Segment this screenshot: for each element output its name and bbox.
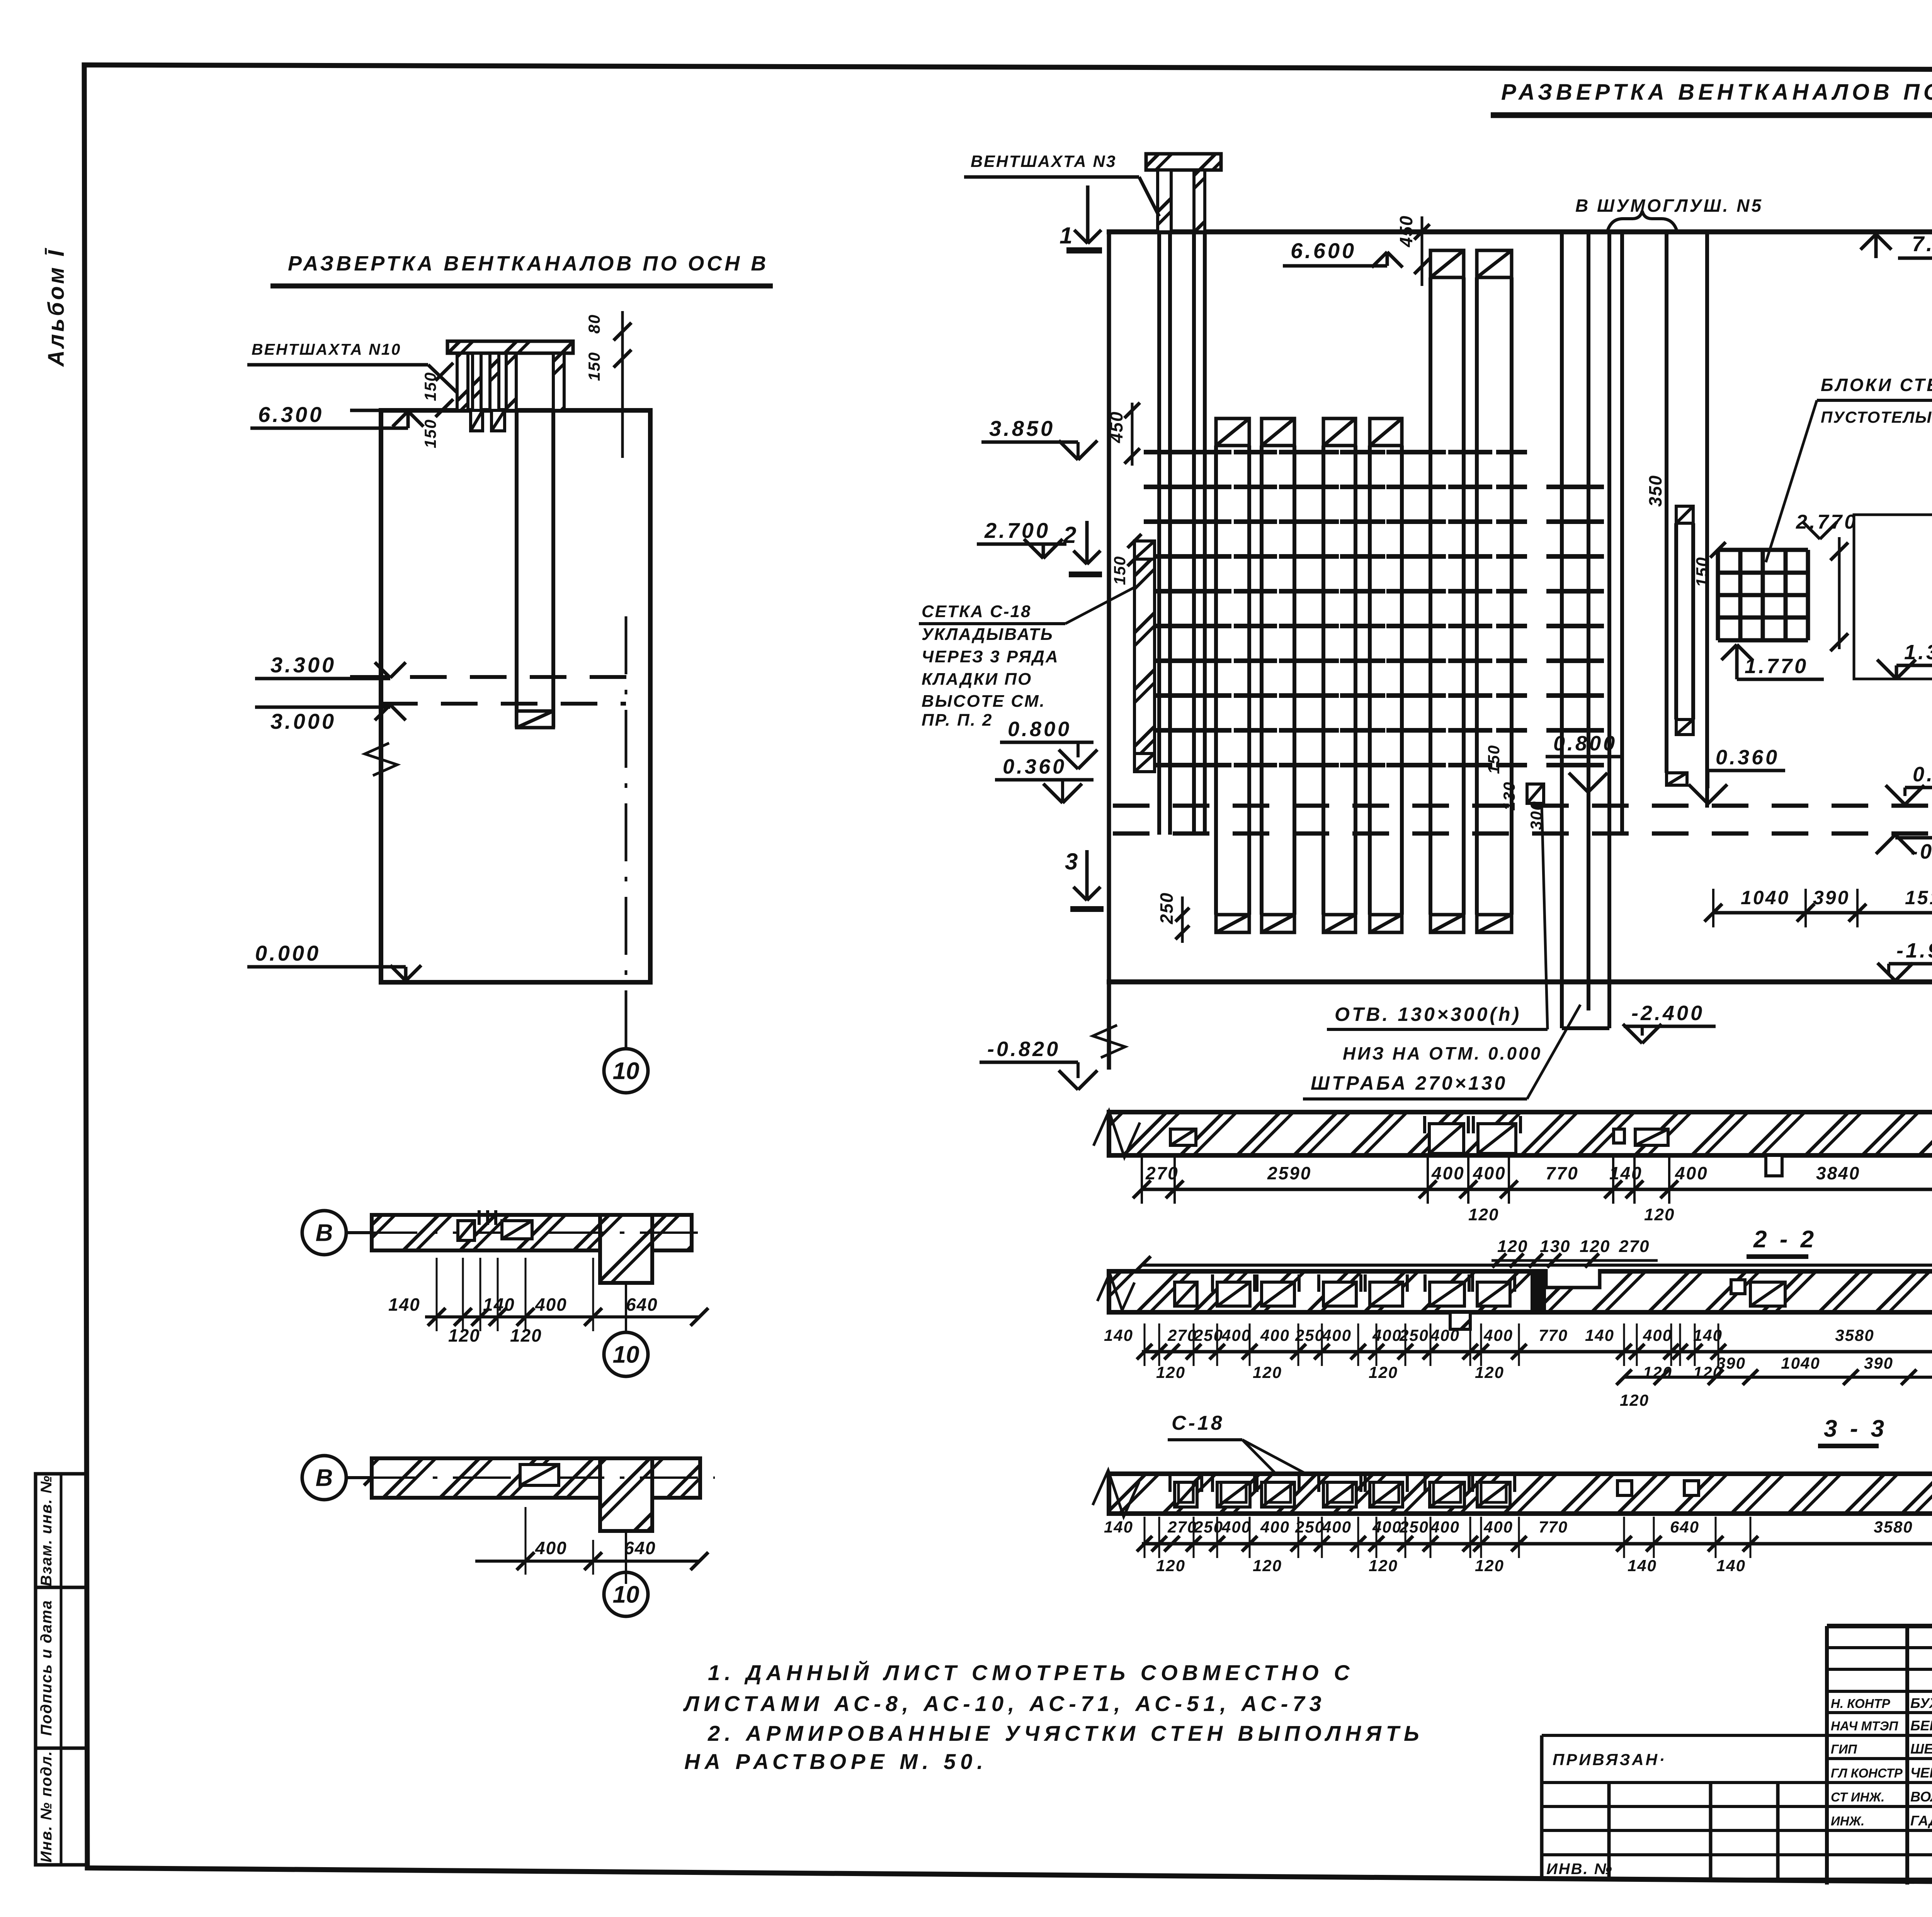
svg-text:640: 640: [624, 1538, 656, 1558]
svg-text:400: 400: [1372, 1326, 1402, 1344]
svg-text:В ШУМОГЛУШ. N5: В ШУМОГЛУШ. N5: [1575, 196, 1763, 216]
detail1 axis circle B: [302, 1211, 346, 1255]
svg-text:120: 120: [1156, 1363, 1185, 1381]
shumoglush brace: [1607, 211, 1677, 231]
section 2-2 left break: [1097, 1273, 1134, 1310]
s33 dim line: [1142, 1542, 1932, 1546]
svg-text:400: 400: [1260, 1326, 1290, 1344]
main left wall: [1107, 232, 1111, 1070]
svg-text:390: 390: [1716, 1354, 1746, 1372]
detail1 dim line: [425, 1315, 699, 1318]
svg-text:ВЕНТШАХТА N3: ВЕНТШАХТА N3: [971, 152, 1116, 171]
detail1 dashdot axis: [359, 1232, 703, 1234]
axis 10 dash-dot line: [625, 616, 628, 1049]
svg-text:БЛОКИ СТЕКЛЯННЫЕ: БЛОКИ СТЕКЛЯННЫЕ: [1821, 375, 1932, 395]
column 350 walls: [1674, 523, 1678, 720]
svg-text:270: 270: [1145, 1163, 1179, 1183]
svg-text:-2.400: -2.400: [1631, 1002, 1704, 1025]
svg-text:ГЛ КОНСТР: ГЛ КОНСТР: [1831, 1766, 1903, 1780]
dashed level 3.000: [381, 702, 626, 706]
svg-text:0.000: 0.000: [1913, 763, 1932, 786]
s22 black duct: [1531, 1271, 1546, 1312]
glass block grid left: [1716, 550, 1720, 640]
s22 dim line1: [1142, 1350, 1932, 1354]
mesh C-18 tick rows: [1144, 450, 1175, 454]
svg-text:СТ ИНЖ.: СТ ИНЖ.: [1831, 1790, 1884, 1804]
opening outline 1.350: [1854, 515, 1932, 679]
level -0.300 dashed: [1113, 832, 1932, 836]
svg-text:400: 400: [1675, 1163, 1708, 1183]
svg-text:250: 250: [1194, 1326, 1223, 1344]
detail1 axis circle 10: [604, 1332, 648, 1376]
vent channel C: [1323, 418, 1355, 446]
svg-text:150: 150: [1111, 556, 1129, 585]
svg-text:1040: 1040: [1741, 887, 1790, 908]
svg-text:400: 400: [1221, 1326, 1251, 1344]
svg-text:120: 120: [448, 1325, 480, 1345]
svg-text:Н. КОНТР: Н. КОНТР: [1831, 1696, 1891, 1711]
svg-text:ОТВ. 130×300(h): ОТВ. 130×300(h): [1335, 1004, 1521, 1025]
svg-text:120: 120: [1620, 1391, 1649, 1409]
svg-text:ВЫСОТЕ СМ.: ВЫСОТЕ СМ.: [922, 692, 1046, 711]
svg-text:2590: 2590: [1267, 1163, 1311, 1183]
svg-text:2. АРМИРОВАННЫЕ УЧЯСТКИ СТЕН: 2. АРМИРОВАННЫЕ УЧЯСТКИ СТЕН ВЫПОЛНЯТЬ: [707, 1721, 1424, 1745]
svg-text:2 - 2: 2 - 2: [1753, 1226, 1817, 1253]
svg-text:250: 250: [1399, 1518, 1429, 1536]
s33 opening 3: [1262, 1482, 1294, 1507]
svg-text:3 - 3: 3 - 3: [1824, 1415, 1887, 1442]
axis circle 10: [604, 1049, 648, 1093]
svg-text:250: 250: [1156, 892, 1177, 925]
svg-text:400: 400: [1430, 1518, 1460, 1536]
svg-text:7.350: 7.350: [1912, 231, 1932, 256]
level 0.000 dashed: [1113, 804, 1932, 808]
svg-text:770: 770: [1539, 1518, 1568, 1536]
svg-text:400: 400: [1322, 1326, 1352, 1344]
s33 opening 1: [1175, 1482, 1197, 1507]
svg-text:350: 350: [1645, 475, 1665, 507]
svg-text:3: 3: [1065, 849, 1078, 874]
svg-text:ГАДЛЕВСКАЯ: ГАДЛЕВСКАЯ: [1910, 1813, 1932, 1829]
svg-text:140: 140: [1104, 1326, 1133, 1344]
s33 small sq a: [1617, 1481, 1632, 1495]
svg-text:-0.820: -0.820: [987, 1038, 1060, 1061]
svg-text:120: 120: [1497, 1237, 1528, 1256]
svg-text:ПР. П. 2: ПР. П. 2: [922, 711, 993, 730]
svg-text:НАЧ МТЭП: НАЧ МТЭП: [1831, 1719, 1898, 1733]
svg-text:400: 400: [1473, 1163, 1506, 1183]
vent shaft N3 left wall b: [1194, 170, 1205, 232]
s11 opening small: [1614, 1129, 1624, 1143]
svg-text:400: 400: [1260, 1518, 1290, 1536]
vent channel B: [1262, 418, 1294, 446]
svg-text:150: 150: [421, 372, 439, 401]
shaft N10 stub 2: [492, 410, 505, 431]
svg-text:400: 400: [1221, 1518, 1251, 1536]
svg-text:450: 450: [1396, 215, 1416, 248]
svg-text:130: 130: [1540, 1237, 1570, 1256]
svg-text:120: 120: [1468, 1205, 1499, 1224]
channel B bottom box: [517, 711, 553, 728]
svg-text:250: 250: [1295, 1326, 1325, 1344]
svg-text:120: 120: [1644, 1205, 1675, 1224]
svg-text:ГИП: ГИП: [1831, 1742, 1857, 1756]
svg-text:120: 120: [1156, 1556, 1185, 1575]
shaft N10 wall 4: [506, 353, 516, 410]
detail2 wall step: [600, 1458, 652, 1531]
svg-text:150: 150: [1693, 556, 1712, 587]
svg-text:140: 140: [1693, 1326, 1723, 1344]
svg-text:1.350: 1.350: [1904, 641, 1932, 664]
svg-text:ЛИСТАМИ АС-8, АС-10, АС-71,: ЛИСТАМИ АС-8, АС-10, АС-71, АС-51, АС-73: [683, 1691, 1326, 1716]
svg-text:140: 140: [1716, 1556, 1746, 1575]
s11 opening F: [1478, 1124, 1516, 1153]
svg-text:ШЕЛЕВНЯ: ШЕЛЕВНЯ: [1910, 1741, 1932, 1757]
svg-text:ИНЖ.: ИНЖ.: [1831, 1814, 1864, 1828]
s33 opening 6: [1430, 1482, 1464, 1507]
svg-text:3840: 3840: [1816, 1163, 1860, 1183]
vent channel F: [1477, 250, 1512, 277]
svg-text:1. ДАННЫЙ ЛИСТ СМОТРЕТЬ СОВ: 1. ДАННЫЙ ЛИСТ СМОТРЕТЬ СОВМЕСТНО С: [708, 1660, 1354, 1685]
s22 opening 1: [1175, 1282, 1197, 1306]
svg-text:770: 770: [1546, 1163, 1579, 1183]
svg-text:400: 400: [1643, 1326, 1672, 1344]
vent shaft N3 left wall a: [1158, 170, 1171, 232]
svg-text:390: 390: [1864, 1354, 1893, 1372]
s33 opening 5: [1370, 1482, 1403, 1507]
svg-text:140: 140: [1585, 1326, 1614, 1344]
detail1 opening 2: [502, 1221, 532, 1239]
main ground line: [1107, 980, 1932, 985]
svg-text:140: 140: [1628, 1556, 1657, 1575]
svg-text:0.800: 0.800: [1553, 732, 1617, 755]
vent channel A: [1216, 418, 1249, 446]
svg-text:450: 450: [1106, 411, 1126, 444]
section 1-1 left break: [1094, 1111, 1140, 1157]
channel B wall right: [551, 410, 555, 728]
svg-text:400: 400: [1322, 1518, 1352, 1536]
detail1 wall step: [600, 1215, 652, 1283]
dashed level 3.300: [350, 675, 650, 679]
left margin stamp boxes: [36, 1474, 87, 1865]
s22 opening 4: [1323, 1282, 1356, 1306]
svg-text:400: 400: [535, 1294, 567, 1315]
svg-text:10: 10: [613, 1342, 639, 1368]
s11 opening E: [1429, 1124, 1464, 1153]
svg-text:НИЗ НА ОТМ. 0.000: НИЗ НА ОТМ. 0.000: [1343, 1043, 1542, 1063]
svg-text:400: 400: [1431, 1163, 1465, 1183]
title underline G: [1491, 112, 1932, 118]
shaft N10 wall 3: [490, 353, 499, 410]
svg-text:0.360: 0.360: [1003, 755, 1066, 778]
svg-text:270: 270: [1167, 1518, 1197, 1536]
s22 top notch: [1546, 1269, 1600, 1288]
svg-text:120: 120: [1369, 1556, 1398, 1575]
duct line 4313: [1665, 232, 1668, 773]
svg-text:250: 250: [1295, 1518, 1325, 1536]
svg-text:1.770: 1.770: [1745, 655, 1808, 678]
section 3-3 left break: [1093, 1470, 1139, 1517]
svg-text:ПУСТОТЕЛЫЕ ГОСТ 9272-75: ПУСТОТЕЛЫЕ ГОСТ 9272-75: [1821, 408, 1932, 426]
shaft N10 wall 2: [473, 353, 481, 410]
s22 opening b: [1750, 1282, 1785, 1306]
svg-text:250: 250: [1194, 1518, 1223, 1536]
svg-text:БУХАРИНА: БУХАРИНА: [1910, 1695, 1932, 1711]
shtraba channel walls: [1560, 232, 1564, 1028]
break mark left wall: [365, 743, 397, 776]
svg-text:ИНВ. №: ИНВ. №: [1546, 1861, 1613, 1878]
section 2-2 wall strip: [1109, 1271, 1932, 1312]
s11 opening 5: [1635, 1129, 1668, 1145]
main roof line: [1107, 230, 1932, 235]
shaft N3 left channel lines: [1157, 232, 1161, 835]
s11 pier below: [1766, 1155, 1782, 1176]
svg-text:1040: 1040: [1781, 1354, 1820, 1372]
svg-text:400: 400: [535, 1538, 567, 1558]
svg-text:3580: 3580: [1835, 1326, 1874, 1344]
detail1 leader: [346, 1231, 381, 1234]
s22 opening 6: [1430, 1282, 1464, 1306]
s22 opening 2: [1217, 1282, 1250, 1306]
s11 opening 1: [1170, 1129, 1196, 1145]
s22 opening 3: [1262, 1282, 1294, 1306]
detail1 wall strip: [372, 1215, 600, 1250]
svg-text:ШТРАБА 270×130: ШТРАБА 270×130: [1311, 1072, 1507, 1094]
svg-text:0.800: 0.800: [1008, 718, 1071, 741]
roof level line left ext: [350, 409, 381, 412]
svg-text:В: В: [316, 1220, 333, 1247]
svg-text:640: 640: [1670, 1518, 1699, 1536]
svg-text:120: 120: [1580, 1237, 1610, 1256]
svg-text:СЕТКА С-18: СЕТКА С-18: [922, 602, 1031, 621]
small box 0.360 right of duct: [1667, 773, 1687, 785]
section 1-1 wall strip: [1109, 1112, 1932, 1155]
detail2 opening: [520, 1465, 559, 1485]
svg-text:УКЛАДЫВАТЬ: УКЛАДЫВАТЬ: [922, 625, 1054, 644]
s22 opening 7: [1477, 1282, 1510, 1306]
svg-text:С-18: С-18: [1172, 1412, 1225, 1434]
duct line 4418: [1705, 232, 1709, 808]
svg-text:1: 1: [1060, 223, 1072, 248]
svg-text:140: 140: [1104, 1518, 1133, 1536]
left building outline: [381, 410, 650, 982]
vent shaft N10 cap: [447, 341, 573, 353]
mesh ticks right ducts: [1546, 485, 1577, 489]
shaft N10 stub 1: [471, 410, 483, 431]
svg-text:3.300: 3.300: [270, 653, 336, 677]
svg-text:300: 300: [1527, 801, 1545, 830]
s11 dim line: [1142, 1188, 1932, 1191]
break mark main left wall: [1093, 1025, 1125, 1058]
svg-text:150: 150: [421, 419, 439, 448]
svg-text:ВЕНТШАХТА N10: ВЕНТШАХТА N10: [252, 340, 401, 358]
detail2 dim line: [475, 1560, 699, 1563]
column 350 top box: [1676, 506, 1693, 523]
shaft N10 wall 5: [553, 353, 564, 410]
svg-text:270: 270: [1167, 1326, 1197, 1344]
svg-text:130: 130: [1500, 781, 1518, 811]
svg-text:1510: 1510: [1905, 887, 1932, 908]
vent shaft N3 left cap: [1146, 154, 1221, 170]
signature table grid: [1825, 1626, 1829, 1885]
svg-text:Взам. инв. №: Взам. инв. №: [38, 1475, 55, 1586]
svg-text:390: 390: [1813, 887, 1850, 908]
detail1 opening small: [458, 1221, 474, 1240]
svg-text:400: 400: [1483, 1326, 1513, 1344]
svg-text:Инв. № подл.: Инв. № подл.: [38, 1750, 55, 1863]
setka C-18 hatched column: [1134, 541, 1155, 559]
svg-text:10: 10: [613, 1058, 639, 1085]
detail2 axis circle B: [302, 1456, 346, 1500]
svg-text:В: В: [316, 1465, 333, 1492]
svg-text:РАЗВЕРТКА ВЕНТКАНАЛОВ ПО ОСН Г: РАЗВЕРТКА ВЕНТКАНАЛОВ ПО ОСН Г: [1501, 80, 1932, 105]
detail2 leader: [346, 1476, 372, 1479]
svg-text:150: 150: [1485, 745, 1503, 774]
s33 small sq b: [1684, 1481, 1699, 1495]
svg-text:Альбом Ī: Альбом Ī: [44, 248, 69, 367]
svg-text:120: 120: [1253, 1363, 1282, 1381]
title underline B: [270, 284, 773, 289]
svg-text:КЛАДКИ ПО: КЛАДКИ ПО: [922, 670, 1032, 689]
svg-text:140: 140: [388, 1294, 420, 1315]
left extension table: [1540, 1735, 1544, 1879]
s22 dim line2: [1624, 1376, 1932, 1379]
svg-text:120: 120: [510, 1325, 542, 1345]
svg-text:ЧЕРНЕЦКИЙ: ЧЕРНЕЦКИЙ: [1910, 1764, 1932, 1781]
channel B wall left: [515, 410, 519, 728]
svg-text:150: 150: [585, 352, 603, 381]
svg-text:80: 80: [585, 314, 603, 334]
svg-text:2: 2: [1063, 522, 1076, 548]
svg-text:250: 250: [1399, 1326, 1429, 1344]
svg-text:Подпись и дата: Подпись и дата: [38, 1600, 55, 1736]
svg-text:400: 400: [1483, 1518, 1513, 1536]
svg-text:120: 120: [1475, 1363, 1504, 1381]
svg-text:270: 270: [1619, 1237, 1650, 1256]
svg-text:120: 120: [1253, 1556, 1282, 1575]
svg-text:120: 120: [1475, 1556, 1504, 1575]
svg-text:770: 770: [1539, 1326, 1568, 1344]
svg-text:140: 140: [1609, 1163, 1643, 1183]
dim line row1: [1713, 911, 1932, 915]
svg-text:ПРИВЯЗАН·: ПРИВЯЗАН·: [1553, 1750, 1667, 1769]
svg-text:2.700: 2.700: [984, 518, 1050, 543]
svg-text:6.300: 6.300: [258, 402, 324, 427]
column 350 bottom box: [1676, 720, 1693, 735]
svg-text:0.000: 0.000: [255, 941, 321, 965]
svg-text:640: 640: [626, 1294, 658, 1315]
detail2 dashdot axis: [359, 1476, 715, 1479]
s22 opening small a: [1731, 1280, 1745, 1294]
svg-text:ЧЕРЕЗ 3 РЯДА: ЧЕРЕЗ 3 РЯДА: [922, 647, 1059, 666]
detail1 mesh ticks: [478, 1210, 481, 1225]
svg-text:3.850: 3.850: [989, 416, 1055, 441]
detail2 wall strip: [372, 1458, 600, 1498]
vent channel D: [1370, 418, 1402, 446]
shaft N10 wall 1: [457, 353, 468, 410]
svg-text:ВОЛЬФЛЕНОК: ВОЛЬФЛЕНОК: [1910, 1789, 1932, 1805]
otv hatched box: [1527, 784, 1544, 803]
s22 opening 5: [1370, 1282, 1403, 1306]
svg-text:0.360: 0.360: [1716, 746, 1779, 769]
s22 pier below: [1450, 1312, 1470, 1329]
svg-text:НА РАСТВОРЕ М. 50.: НА РАСТВОРЕ М. 50.: [684, 1749, 988, 1774]
svg-text:3580: 3580: [1874, 1518, 1913, 1536]
s33 opening 2: [1217, 1482, 1250, 1507]
svg-text:6.600: 6.600: [1291, 238, 1356, 263]
svg-text:БЕГАНСКАЯ: БЕГАНСКАЯ: [1910, 1718, 1932, 1733]
vent channel E: [1430, 250, 1464, 277]
detail2 axis circle 10: [604, 1572, 648, 1616]
s33 opening 4: [1323, 1482, 1356, 1507]
s33 opening 7: [1477, 1482, 1510, 1507]
svg-text:120: 120: [1369, 1363, 1398, 1381]
section 3-3 wall strip: [1109, 1474, 1932, 1514]
svg-text:-1.950: -1.950: [1896, 939, 1932, 962]
svg-text:3.000: 3.000: [270, 709, 336, 733]
svg-text:РАЗВЕРТКА ВЕНТКАНАЛОВ ПО ОСН В: РАЗВЕРТКА ВЕНТКАНАЛОВ ПО ОСН В: [288, 252, 769, 275]
svg-text:10: 10: [613, 1582, 639, 1608]
svg-text:400: 400: [1372, 1518, 1402, 1536]
